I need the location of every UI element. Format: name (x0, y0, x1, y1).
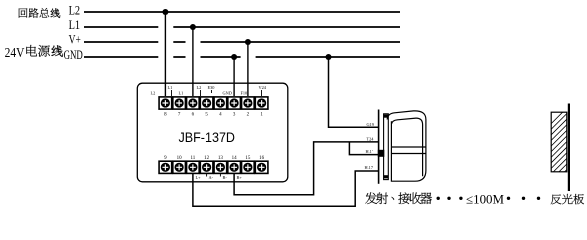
wire L1 to terminal 6 (192, 27, 194, 96)
svg-text:L1: L1 (168, 85, 173, 90)
wire V+ to terminal 2 (247, 42, 249, 96)
svg-text:V+: V+ (69, 33, 81, 47)
junction on L2 (162, 9, 168, 15)
detector connector knob (378, 150, 385, 157)
junction GND to detector (326, 54, 332, 60)
svg-text:24V: 24V (5, 45, 25, 60)
wall line (568, 104, 570, 192)
wire terminal 14 to detector 24V terminal (234, 142, 379, 195)
junction on GND (231, 54, 237, 60)
wire V+ bus (84, 41, 400, 43)
svg-text:L2: L2 (197, 85, 202, 90)
svg-text:H.17: H.17 (365, 165, 374, 170)
junction on V+ (245, 39, 251, 45)
caption dots (437, 197, 440, 200)
svg-text:G19: G19 (367, 122, 374, 127)
wire L2 to terminal 8 (164, 12, 166, 96)
svg-text:11: 11 (190, 156, 195, 161)
svg-text:14: 14 (232, 156, 238, 161)
svg-text:GND: GND (223, 91, 232, 96)
wire GND bus (84, 56, 400, 58)
wire GND to terminal 3 (233, 57, 235, 96)
module JBF-137D box (137, 83, 287, 182)
detector mounting bracket (378, 110, 380, 184)
svg-text:12: 12 (204, 156, 210, 161)
label lead ticks (172, 90, 262, 96)
svg-text:13: 13 (218, 156, 224, 161)
junction on L1 (190, 24, 196, 30)
detector body (387, 111, 426, 181)
wire L1 bus (84, 26, 400, 28)
wire branch to detector H.1 connector (349, 142, 378, 155)
svg-text:JBF-137D: JBF-137D (179, 129, 236, 145)
bottom terminal labels (196, 175, 243, 180)
svg-text:15: 15 (245, 156, 251, 161)
svg-text:16: 16 (259, 156, 265, 161)
label 回路总线 (loop bus) (19, 8, 28, 17)
svg-text:≤100M: ≤100M (466, 192, 504, 206)
svg-text:F10: F10 (241, 91, 248, 96)
wire terminal 11 to detector H.17 terminal (193, 171, 379, 206)
detector back plate (384, 114, 389, 180)
caption 反光板 (reflector) (551, 194, 562, 204)
svg-text:E30: E30 (208, 85, 215, 90)
caption 发射、接收器 (emitter/receiver) (365, 192, 377, 204)
svg-text:H.1′: H.1′ (366, 149, 373, 154)
bottom terminal pin numbers 9..16 (164, 156, 264, 161)
top terminal strip (159, 97, 172, 109)
wire GND bus to detector GND terminal (329, 57, 379, 127)
svg-text:B+: B+ (237, 175, 243, 180)
svg-text:B-: B- (223, 175, 228, 180)
svg-text:L2: L2 (151, 91, 156, 96)
svg-text:A-: A- (209, 175, 214, 180)
reflector hatched panel (551, 112, 567, 172)
wire L2 bus (84, 11, 400, 13)
svg-text:GND: GND (64, 48, 83, 62)
svg-text:10: 10 (177, 156, 183, 161)
svg-text:L+: L+ (196, 175, 202, 180)
top terminal pin numbers 8..1 (164, 112, 263, 117)
top terminal labels (151, 85, 267, 96)
svg-text:L1: L1 (179, 91, 184, 96)
bottom terminal strip (159, 161, 172, 173)
svg-text:V24: V24 (259, 85, 267, 90)
label 电源线 (26, 45, 37, 56)
svg-text:L2: L2 (69, 4, 81, 18)
svg-text:L1: L1 (69, 18, 81, 32)
svg-text:T24: T24 (367, 137, 375, 142)
